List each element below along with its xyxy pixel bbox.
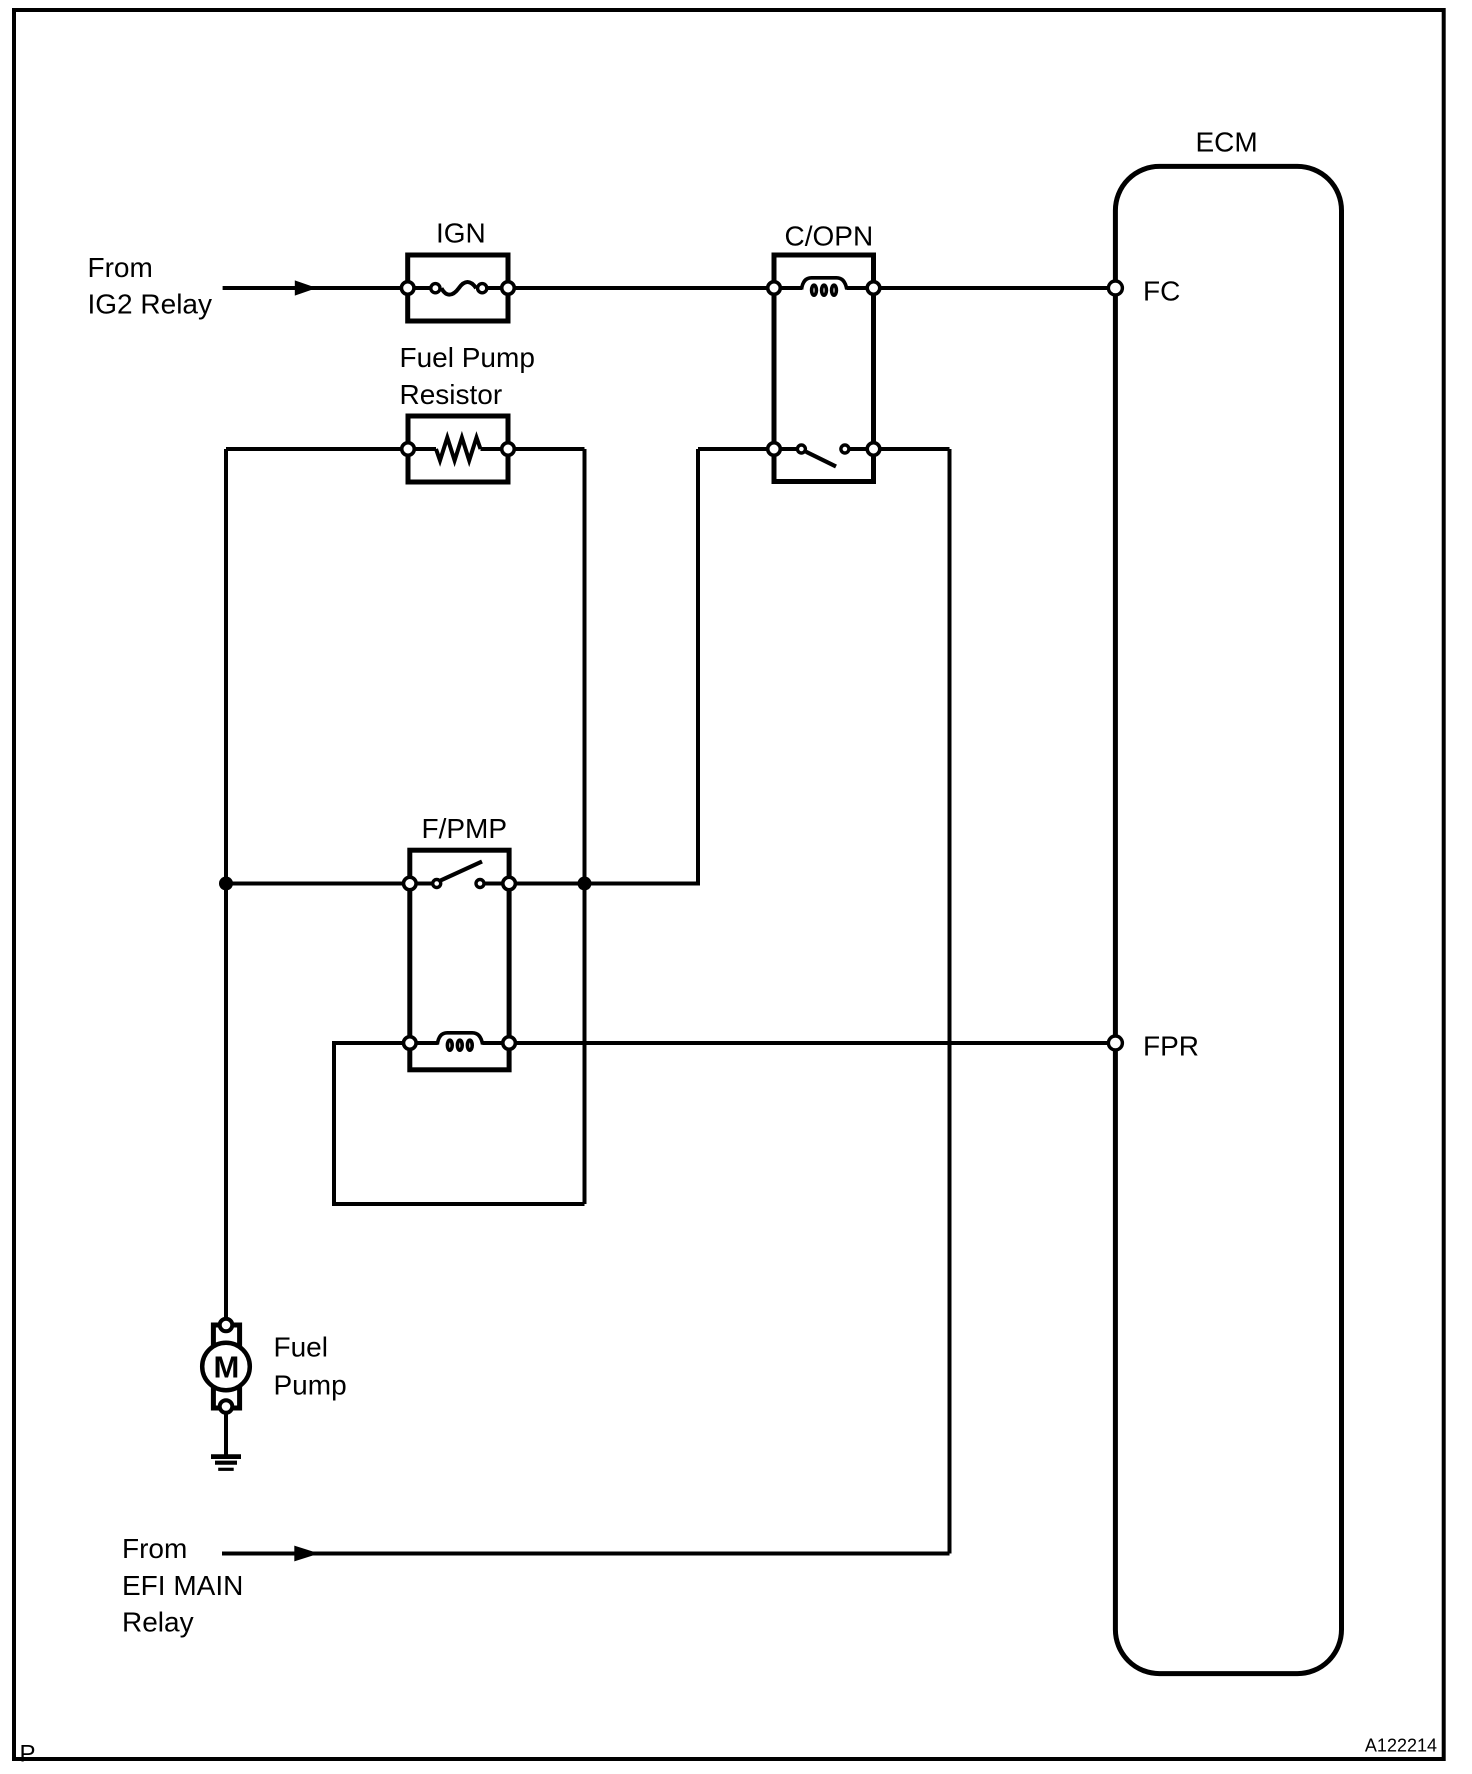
svg-text:Fuel Pump: Fuel Pump [400,342,535,373]
svg-text:FPR: FPR [1143,1031,1199,1062]
fuse IGN (box) [408,255,508,321]
svg-text:IGN: IGN [436,217,486,248]
svg-text:A122214: A122214 [1365,1735,1437,1755]
arrowhead on EFI MAIN feed [294,1546,319,1562]
arrowhead on IG2 feed [295,280,317,295]
wire: C/OPN to FC node (row A right) [874,286,1116,290]
motor M1 fuel pump bracket [213,1325,239,1408]
motor M1 terminal bottom [220,1400,233,1413]
wire: F/PMP switch row right segment [509,882,698,886]
relay F/PMP switch blade [441,862,483,881]
resistor Fuel Pump Resistor (box) [408,416,508,482]
ECM U1 (rounded box) [1115,166,1341,1673]
wire: motor to ground [224,1413,228,1455]
motor M1 body circle [202,1343,250,1391]
wire: From IG2 Relay feed (row A left) [223,286,408,290]
fuse IGN pin left [401,282,414,295]
relay F/PMP switch stub right [480,882,509,886]
wire: F/PMP coil left return loop [334,1043,585,1204]
svg-text:M: M [214,1350,240,1385]
relay C/OPN coil [774,278,874,295]
wire: vertical x226 down to fuel pump [224,449,228,1318]
wire: F/PMP switch row left segment [226,882,410,886]
wire: vertical x584.5 down to y1204 [583,449,587,1204]
wire: C/OPN switch row left stub [698,447,774,451]
svg-text:FC: FC [1143,276,1180,307]
relay F/PMP (box) [410,850,509,1070]
junction at x226 switch row [219,877,233,891]
svg-text:From: From [122,1533,187,1564]
wire: resistor left lead to x226 [226,447,408,451]
relay F/PMP switch pin right [503,877,516,890]
relay F/PMP coil [410,1033,509,1050]
motor M1 terminal top [220,1319,233,1332]
node FC [1108,281,1122,295]
svg-text:ECM: ECM [1196,127,1258,158]
resistor pin left [402,443,415,456]
label Fuel Pump Resistor [400,342,535,410]
fuse IGN contact circles [431,284,487,293]
relay F/PMP switch pin left [404,877,417,890]
svg-text:Relay: Relay [122,1607,194,1638]
svg-text:IG2 Relay: IG2 Relay [88,288,213,319]
relay F/PMP coil pin right [503,1037,516,1050]
wire: C/OPN switch row right stub [874,447,950,451]
wire: F/PMP coil right to FPR node [509,1041,1115,1045]
ground [211,1457,241,1470]
relay C/OPN (box) [774,255,874,482]
relay C/OPN coil pin right [867,282,880,295]
relay C/OPN switch pin left [768,443,781,456]
svg-text:From: From [88,252,153,283]
wire: vertical x698 down to F/PMP switch row [696,449,700,886]
wire: From EFI MAIN Relay feed (row E) [222,1552,950,1556]
relay C/OPN switch blade [806,452,836,467]
svg-text:F/PMP: F/PMP [422,813,508,844]
relay C/OPN switch stub right [845,447,874,451]
junction at x584.5 switch row [578,877,592,891]
svg-text:C/OPN: C/OPN [785,220,874,251]
node FPR [1108,1036,1122,1050]
wire: IGN to C/OPN (row A middle) [508,286,774,290]
svg-text:Fuel: Fuel [274,1332,328,1363]
wire: resistor right lead to x584.5 [508,447,585,451]
wire: vertical x949.5 down to EFI MAIN relay feed [948,449,952,1554]
label Fuel Pump (motor) [274,1332,347,1401]
svg-text:EFI MAIN: EFI MAIN [122,1570,243,1601]
label: From EFI MAIN Relay [122,1533,243,1638]
relay F/PMP coil pin left [404,1037,417,1050]
label: From IG2 Relay [88,252,213,319]
resistor element [408,438,508,461]
relay C/OPN coil pin left [768,282,781,295]
svg-text:Resistor: Resistor [400,379,503,410]
fuse IGN element [408,282,508,295]
svg-text:Pump: Pump [274,1369,347,1400]
relay F/PMP switch contacts [433,880,484,888]
relay F/PMP switch stub left [410,882,437,886]
relay C/OPN switch pin right [867,443,880,456]
resistor pin right [502,443,515,456]
svg-text:P: P [20,1741,36,1768]
fuse IGN pin right [502,282,515,295]
relay C/OPN switch contacts [797,445,849,453]
relay C/OPN switch stub left [774,447,801,451]
